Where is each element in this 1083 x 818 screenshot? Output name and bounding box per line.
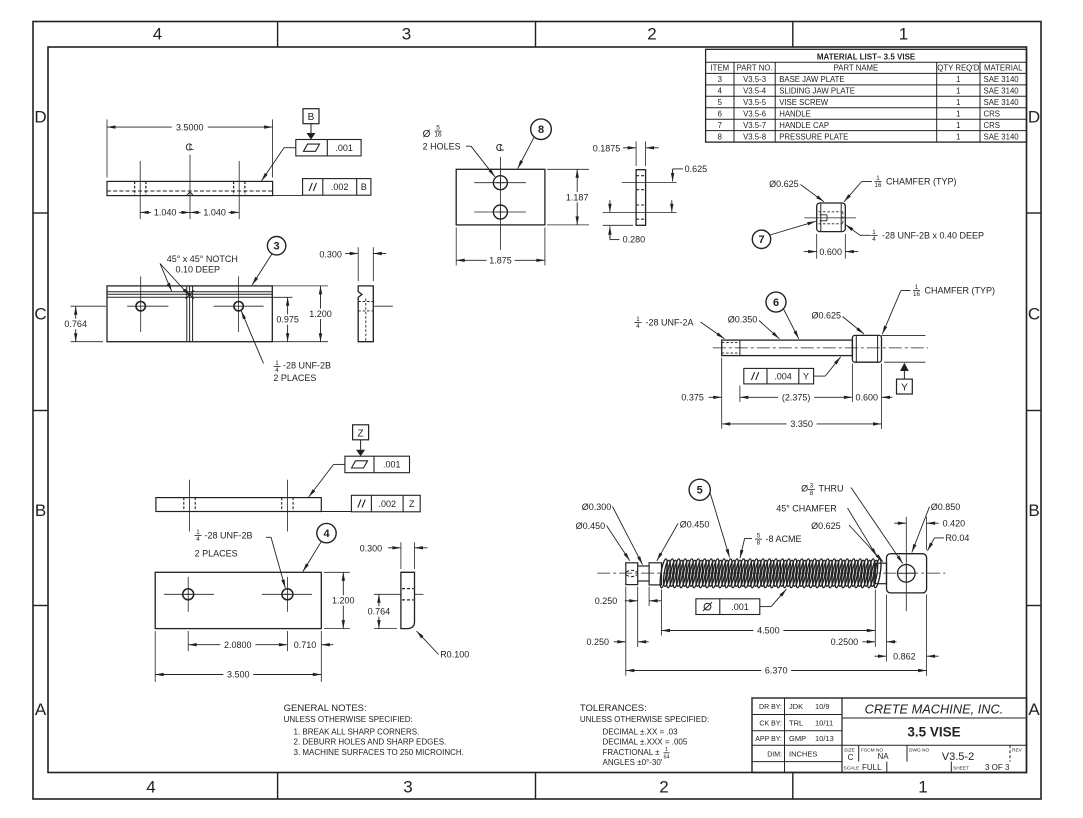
svg-text:A: A bbox=[35, 700, 47, 719]
svg-text:Ø0.450: Ø0.450 bbox=[680, 519, 710, 529]
svg-text:0.862: 0.862 bbox=[893, 652, 916, 662]
svg-text:6: 6 bbox=[773, 297, 779, 309]
svg-text:PRESSURE PLATE: PRESSURE PLATE bbox=[779, 132, 848, 141]
svg-text:1: 1 bbox=[956, 75, 960, 84]
svg-text:10/13: 10/13 bbox=[815, 734, 834, 743]
svg-text:.001: .001 bbox=[731, 602, 749, 612]
svg-text:B: B bbox=[361, 182, 367, 192]
svg-text:1.200: 1.200 bbox=[309, 309, 332, 319]
svg-text:3: 3 bbox=[402, 24, 411, 43]
svg-text:Ø0.350: Ø0.350 bbox=[728, 315, 758, 325]
svg-text:1: 1 bbox=[275, 360, 279, 367]
svg-text:INCHES: INCHES bbox=[789, 750, 817, 759]
svg-text:QTY REQ'D: QTY REQ'D bbox=[937, 64, 979, 73]
svg-text:2: 2 bbox=[647, 24, 656, 43]
svg-text:8: 8 bbox=[810, 490, 814, 497]
svg-text:3 OF 3: 3 OF 3 bbox=[985, 763, 1010, 772]
svg-text:4.500: 4.500 bbox=[757, 626, 780, 636]
svg-text:4: 4 bbox=[153, 24, 162, 43]
svg-text:2 HOLES: 2 HOLES bbox=[423, 142, 461, 152]
svg-text:5: 5 bbox=[757, 532, 761, 539]
svg-text:DWG NO: DWG NO bbox=[909, 747, 930, 753]
svg-text:HANDLE CAP: HANDLE CAP bbox=[779, 121, 829, 130]
svg-text:7: 7 bbox=[718, 121, 722, 130]
svg-text:V3.5-3: V3.5-3 bbox=[743, 75, 766, 84]
svg-text:GENERAL NOTES:: GENERAL NOTES: bbox=[284, 703, 367, 714]
svg-text:SAE 3140: SAE 3140 bbox=[984, 75, 1020, 84]
svg-text:DECIMAL ±.XX = .03: DECIMAL ±.XX = .03 bbox=[603, 727, 679, 736]
svg-text:Z: Z bbox=[358, 428, 364, 439]
svg-text:CRETE MACHINE, INC.: CRETE MACHINE, INC. bbox=[865, 702, 1004, 717]
svg-text:3: 3 bbox=[718, 75, 722, 84]
svg-text:Y: Y bbox=[901, 382, 908, 393]
svg-text:(2.375): (2.375) bbox=[782, 393, 811, 403]
svg-text:Ø0.625: Ø0.625 bbox=[769, 179, 799, 189]
svg-text:Y: Y bbox=[803, 371, 809, 381]
svg-text:0.250: 0.250 bbox=[595, 596, 618, 606]
svg-text:B: B bbox=[1028, 501, 1039, 520]
svg-text:NA: NA bbox=[877, 752, 889, 761]
svg-text:0.710: 0.710 bbox=[294, 640, 317, 650]
svg-text:1: 1 bbox=[665, 747, 668, 753]
svg-text:APP BY:: APP BY: bbox=[755, 736, 782, 743]
svg-text:-28 UNF-2A: -28 UNF-2A bbox=[646, 317, 694, 327]
svg-text:-8 ACME: -8 ACME bbox=[766, 534, 802, 544]
svg-text:A: A bbox=[1028, 700, 1040, 719]
svg-text:TRL: TRL bbox=[789, 719, 803, 728]
svg-text:2.0800: 2.0800 bbox=[224, 640, 252, 650]
svg-text:3: 3 bbox=[274, 241, 280, 253]
svg-text:.002: .002 bbox=[379, 499, 397, 509]
svg-text:1: 1 bbox=[915, 284, 919, 291]
svg-text:SAE 3140: SAE 3140 bbox=[984, 132, 1020, 141]
svg-text:64: 64 bbox=[663, 754, 669, 760]
svg-text:5: 5 bbox=[436, 124, 440, 131]
svg-text:2. DEBURR HOLES AND SHARP EDG: 2. DEBURR HOLES AND SHARP EDGES. bbox=[294, 738, 447, 747]
svg-text:R0.100: R0.100 bbox=[440, 650, 469, 660]
svg-text:SHEET: SHEET bbox=[953, 766, 969, 772]
svg-text:4: 4 bbox=[323, 528, 330, 540]
svg-text:1: 1 bbox=[876, 175, 880, 182]
svg-text:1: 1 bbox=[196, 529, 200, 536]
svg-text:1.200: 1.200 bbox=[332, 596, 355, 606]
svg-text:4: 4 bbox=[146, 778, 155, 797]
svg-text:PART NAME: PART NAME bbox=[834, 64, 879, 73]
svg-text:DECIMAL ±.XXX = .005: DECIMAL ±.XXX = .005 bbox=[603, 738, 688, 747]
svg-text:0.10 DEEP: 0.10 DEEP bbox=[176, 265, 221, 275]
svg-text:GMP: GMP bbox=[789, 734, 806, 743]
svg-text:0.2500: 0.2500 bbox=[831, 637, 859, 647]
svg-text:V3.5-7: V3.5-7 bbox=[743, 121, 766, 130]
svg-text:.002: .002 bbox=[331, 182, 349, 192]
svg-text:.001: .001 bbox=[383, 460, 401, 470]
svg-text:C: C bbox=[1028, 305, 1040, 324]
svg-text:REV: REV bbox=[1012, 747, 1023, 753]
svg-text:8: 8 bbox=[757, 540, 761, 547]
svg-text:1.040: 1.040 bbox=[203, 208, 226, 218]
svg-text:8: 8 bbox=[718, 132, 722, 141]
svg-text:SAE 3140: SAE 3140 bbox=[984, 98, 1020, 107]
svg-text:0.764: 0.764 bbox=[368, 607, 391, 617]
svg-text:16: 16 bbox=[913, 291, 920, 298]
svg-text:0.250: 0.250 bbox=[586, 637, 609, 647]
svg-text:ITEM: ITEM bbox=[710, 64, 729, 73]
svg-text:C: C bbox=[848, 753, 854, 762]
svg-text:HANDLE: HANDLE bbox=[779, 109, 811, 118]
svg-text:.004: .004 bbox=[774, 371, 792, 381]
svg-text:Ø: Ø bbox=[423, 129, 431, 140]
svg-text:0.764: 0.764 bbox=[64, 319, 87, 329]
svg-text:UNLESS OTHERWISE SPECIFIED:: UNLESS OTHERWISE SPECIFIED: bbox=[580, 715, 709, 724]
svg-text:10/11: 10/11 bbox=[815, 719, 833, 728]
svg-text:CRS: CRS bbox=[984, 121, 1000, 130]
svg-text:6: 6 bbox=[718, 109, 722, 118]
svg-text:5: 5 bbox=[718, 98, 723, 107]
svg-text:.001: .001 bbox=[335, 143, 353, 153]
svg-text:0.420: 0.420 bbox=[943, 518, 966, 528]
svg-text:V3.5-8: V3.5-8 bbox=[743, 132, 766, 141]
svg-text:7: 7 bbox=[758, 234, 764, 246]
svg-text:0.375: 0.375 bbox=[681, 393, 704, 403]
svg-text:MATERIAL: MATERIAL bbox=[984, 64, 1023, 73]
svg-text:-28 UNF-2B: -28 UNF-2B bbox=[205, 530, 253, 540]
svg-text:0.600: 0.600 bbox=[819, 247, 842, 257]
svg-text:B: B bbox=[308, 112, 315, 123]
svg-text:THRU: THRU bbox=[819, 484, 844, 494]
svg-text:BASE JAW PLATE: BASE JAW PLATE bbox=[779, 75, 844, 84]
svg-text:C: C bbox=[34, 305, 46, 324]
svg-text:0.975: 0.975 bbox=[276, 315, 299, 325]
svg-text:1: 1 bbox=[872, 229, 876, 236]
svg-text:3. MACHINE SURFACES TO 250 MI: 3. MACHINE SURFACES TO 250 MICROINCH. bbox=[294, 748, 464, 757]
svg-text:PART NO.: PART NO. bbox=[737, 64, 773, 73]
svg-text:10/9: 10/9 bbox=[815, 702, 830, 711]
svg-text:3.5000: 3.5000 bbox=[176, 122, 204, 132]
svg-text:Ø: Ø bbox=[801, 484, 808, 494]
svg-text:8: 8 bbox=[538, 124, 544, 136]
svg-text:CHAMFER (TYP): CHAMFER (TYP) bbox=[886, 177, 957, 187]
svg-text:5: 5 bbox=[697, 485, 703, 497]
svg-text:Ø0.300: Ø0.300 bbox=[582, 502, 612, 512]
svg-text:JDK: JDK bbox=[789, 702, 803, 711]
svg-text:R0.04: R0.04 bbox=[945, 533, 969, 543]
svg-text:B: B bbox=[35, 501, 46, 520]
svg-text:1: 1 bbox=[956, 132, 960, 141]
svg-text:45° CHAMFER: 45° CHAMFER bbox=[776, 504, 837, 514]
svg-text:1.040: 1.040 bbox=[154, 208, 177, 218]
svg-text:1: 1 bbox=[956, 109, 960, 118]
svg-text:4: 4 bbox=[718, 86, 723, 95]
svg-text:1.875: 1.875 bbox=[489, 256, 512, 266]
svg-text:DR BY:: DR BY: bbox=[759, 704, 782, 711]
svg-text:FULL: FULL bbox=[862, 763, 882, 772]
svg-text:3.5 VISE: 3.5 VISE bbox=[907, 725, 960, 740]
svg-text:3.500: 3.500 bbox=[227, 670, 250, 680]
svg-text:CRS: CRS bbox=[984, 109, 1000, 118]
svg-text:4: 4 bbox=[636, 323, 640, 330]
svg-text:4: 4 bbox=[872, 236, 876, 243]
svg-text:FRACTIONAL ±: FRACTIONAL ± bbox=[603, 748, 661, 757]
svg-text:1.187: 1.187 bbox=[566, 192, 589, 202]
svg-text:1: 1 bbox=[956, 98, 960, 107]
svg-text:2 PLACES: 2 PLACES bbox=[195, 549, 238, 559]
svg-text:0.625: 0.625 bbox=[685, 164, 708, 174]
svg-text:V3.5-4: V3.5-4 bbox=[743, 86, 767, 95]
svg-text:1: 1 bbox=[956, 121, 960, 130]
svg-text:1. BREAK ALL SHARP CORNERS.: 1. BREAK ALL SHARP CORNERS. bbox=[294, 727, 420, 736]
svg-text:CHAMFER (TYP): CHAMFER (TYP) bbox=[925, 286, 996, 296]
svg-text:Ø0.450: Ø0.450 bbox=[576, 521, 606, 531]
svg-text:16: 16 bbox=[875, 182, 882, 189]
svg-text:V3.5-6: V3.5-6 bbox=[743, 109, 766, 118]
svg-text:3.350: 3.350 bbox=[790, 419, 813, 429]
svg-text:D: D bbox=[34, 108, 46, 127]
svg-text:1: 1 bbox=[918, 778, 927, 797]
svg-text:6.370: 6.370 bbox=[765, 666, 788, 676]
svg-text:Ø0.625: Ø0.625 bbox=[811, 521, 841, 531]
svg-text:L: L bbox=[189, 142, 194, 152]
svg-text:2: 2 bbox=[659, 778, 668, 797]
svg-text:UNLESS OTHERWISE SPECIFIED:: UNLESS OTHERWISE SPECIFIED: bbox=[284, 715, 413, 724]
svg-text:D: D bbox=[1028, 108, 1040, 127]
svg-text:MATERIAL LIST– 3.5 VISE: MATERIAL LIST– 3.5 VISE bbox=[817, 52, 916, 61]
svg-text:16: 16 bbox=[434, 132, 442, 139]
svg-text:ANGLES ±0°-30′: ANGLES ±0°-30′ bbox=[603, 758, 663, 767]
svg-text:Ø0.625: Ø0.625 bbox=[811, 310, 841, 320]
svg-text:Ø0.850: Ø0.850 bbox=[931, 502, 961, 512]
svg-text:CK BY:: CK BY: bbox=[759, 721, 782, 728]
svg-text:1: 1 bbox=[636, 316, 640, 323]
svg-text:3: 3 bbox=[810, 483, 814, 490]
svg-text:-28 UNF-2B x 0.40 DEEP: -28 UNF-2B x 0.40 DEEP bbox=[882, 231, 984, 241]
svg-text:2 PLACES: 2 PLACES bbox=[273, 373, 316, 383]
svg-text:SCALE: SCALE bbox=[844, 766, 860, 772]
svg-text:0.300: 0.300 bbox=[360, 544, 383, 554]
svg-text:Z: Z bbox=[409, 499, 415, 509]
svg-text:4: 4 bbox=[196, 536, 200, 543]
svg-text:L: L bbox=[499, 143, 504, 153]
svg-text:1: 1 bbox=[956, 86, 960, 95]
svg-text:1: 1 bbox=[899, 24, 908, 43]
svg-text:-28 UNF-2B: -28 UNF-2B bbox=[283, 361, 331, 371]
svg-text:0.600: 0.600 bbox=[856, 393, 879, 403]
svg-text:0.280: 0.280 bbox=[623, 235, 646, 245]
svg-text:0.300: 0.300 bbox=[319, 249, 342, 259]
svg-text:SAE 3140: SAE 3140 bbox=[984, 86, 1020, 95]
svg-text:TOLERANCES:: TOLERANCES: bbox=[580, 703, 647, 714]
svg-text:V3.5-5: V3.5-5 bbox=[743, 98, 767, 107]
svg-text:V3.5-2: V3.5-2 bbox=[942, 751, 974, 763]
svg-text:VISE SCREW: VISE SCREW bbox=[779, 98, 829, 107]
svg-text:45° x 45° NOTCH: 45° x 45° NOTCH bbox=[167, 254, 238, 264]
svg-text:3: 3 bbox=[403, 778, 412, 797]
svg-text:SLIDING JAW PLATE: SLIDING JAW PLATE bbox=[779, 86, 855, 95]
svg-text:DIM:: DIM: bbox=[767, 752, 782, 759]
svg-text:0.1875: 0.1875 bbox=[593, 143, 621, 153]
